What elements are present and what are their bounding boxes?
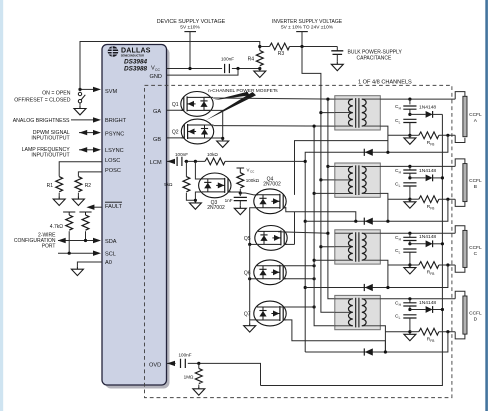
pull-up resistor 4.7k (to SCL) rail bar — [63, 212, 75, 215]
capacitor CH (A) — [409, 99, 411, 104]
svg-text:R3: R3 — [278, 51, 285, 57]
wire Q6 gate to V3 bus — [283, 278, 314, 280]
svg-text:5V ±10%: 5V ±10% — [180, 25, 200, 31]
wire node B to Q4 — [240, 193, 257, 195]
CCFL A lamp tube — [463, 96, 467, 136]
svg-text:FB: FB — [430, 142, 434, 146]
resistor RFB (C) — [410, 264, 419, 266]
Dallas logo mark — [108, 46, 119, 57]
ground below switch — [74, 106, 86, 115]
svg-text:1N4148: 1N4148 — [419, 234, 436, 240]
resistor 4.7k left — [66, 215, 73, 230]
steering diode (C) — [364, 284, 373, 291]
dashed box: 1 OF 4/8 CHANNELS — [145, 85, 452, 397]
svg-text:LOSC: LOSC — [105, 158, 120, 164]
svg-text:CCFL: CCFL — [469, 245, 482, 251]
svg-text:10kΩ: 10kΩ — [207, 152, 218, 157]
node switch/rail junction — [78, 88, 81, 91]
resistor RFB (D) — [410, 331, 419, 333]
node B (Q4 drive node) — [239, 191, 242, 194]
node SDA pull-up — [84, 239, 87, 242]
diode 1N4148 (C) — [410, 243, 426, 245]
steering diode (D) — [364, 348, 373, 355]
wire Q1 source down to ground node — [204, 110, 223, 138]
lamp C connector tabs — [455, 226, 465, 273]
bus V3 (low-side primary bus) — [314, 126, 335, 326]
wire Q7 drain to V3 bus — [277, 306, 314, 308]
steering diode (A) — [364, 149, 373, 156]
resistor 10k (horizontal) — [205, 158, 225, 165]
node CH/CL/diode (C) — [408, 242, 411, 245]
page frame: left pale blue strip — [0, 0, 3, 411]
wire 1N4148 cathode to OVD bus top — [261, 114, 443, 385]
SDA wire — [58, 240, 95, 242]
wire device supply down to VCC line — [189, 32, 191, 69]
transistor Q3 2N7002 — [199, 173, 231, 198]
svg-text:CCFL: CCFL — [469, 311, 482, 317]
transistor Q5 — [255, 226, 287, 251]
BRIGHT pin arrow — [93, 117, 101, 122]
svg-text:A0: A0 — [105, 260, 112, 266]
svg-text:SEMICONDUCTOR: SEMICONDUCTOR — [121, 53, 144, 57]
svg-text:Q1: Q1 — [172, 102, 179, 108]
node CL/RFB (D) — [408, 330, 411, 333]
node R4/R3/SVM rail — [258, 45, 261, 48]
IC U1 DS3984/DS3988 shadow — [105, 48, 170, 389]
svg-text:GB: GB — [153, 137, 161, 143]
wire T3 secondary top to lamp C — [380, 232, 455, 234]
ground below A0 — [71, 267, 83, 276]
node SCL pull-up — [68, 252, 71, 255]
capacitor 100nF (VCC decoupling) — [225, 64, 230, 73]
svg-text:GND: GND — [150, 74, 162, 80]
steering diode (C) wire — [305, 265, 448, 288]
ground at CL/RFB node (C) — [404, 265, 416, 274]
wire Q5 source — [250, 243, 259, 245]
FAULT pin arrow (output) — [94, 206, 102, 208]
node CL/RFB (B) — [408, 198, 411, 201]
LSYNC double arrow — [79, 147, 101, 152]
transistor Q6 — [254, 260, 286, 285]
capacitor CL (B) — [403, 183, 416, 186]
steering diode (D) wire — [305, 332, 448, 352]
node RFB / lamp D return — [446, 330, 449, 333]
node 1M tap — [197, 362, 200, 365]
svg-text:BRIGHT: BRIGHT — [105, 118, 127, 124]
wire 5k bottom to ground node — [186, 193, 195, 201]
CCFL B lamp tube — [463, 164, 467, 202]
transformer T3 — [335, 230, 381, 264]
svg-text:2N7002: 2N7002 — [263, 182, 281, 188]
svg-text:POSC: POSC — [105, 168, 121, 174]
wire V3 to T2/T3 bottoms — [314, 193, 335, 260]
svg-text:1MΩ: 1MΩ — [184, 375, 194, 380]
svg-text:1N4148: 1N4148 — [419, 105, 436, 111]
ground below Q3 — [189, 200, 201, 209]
wire Q3 source to ground node — [195, 192, 202, 200]
wire cap to OVD bus corner — [188, 363, 261, 385]
svg-text:100nF: 100nF — [178, 353, 191, 358]
wire Q3 drain feed — [195, 161, 202, 179]
bus V4 (supply centre-tap bus) — [321, 113, 352, 313]
resistor R4 — [259, 47, 261, 51]
device supply rail tick — [184, 31, 196, 33]
wire R4 to R3 — [260, 46, 270, 48]
wire T4 secondary bottom down to RFB node — [380, 326, 410, 352]
svg-text:OVD: OVD — [149, 362, 161, 368]
wire Q5 gate to V1 bus — [284, 243, 294, 245]
CCFL D lamp tube — [463, 296, 467, 334]
transistor Q1 — [181, 92, 213, 117]
node CH/CL/diode (D) — [408, 308, 411, 311]
wire LOSC to R1 — [59, 162, 102, 177]
inverter supply rail tick — [296, 31, 308, 33]
capacitor CL (C) — [403, 249, 416, 252]
node Q4 gate tap on steering wire (B) — [354, 220, 357, 223]
svg-text:D: D — [474, 317, 478, 323]
ground at CL/RFB node (D) — [404, 332, 416, 341]
SVM pin arrow — [93, 87, 101, 92]
source-chain vertical Q4..Q7 — [249, 244, 251, 320]
wire A0 to ground — [77, 262, 102, 267]
capacitor CL (A) — [403, 119, 416, 122]
transistor Q2 — [181, 119, 213, 144]
svg-text:CC: CC — [250, 169, 255, 173]
svg-text:INPUT/OUTPUT: INPUT/OUTPUT — [31, 135, 70, 141]
svg-text:FB: FB — [430, 272, 434, 276]
node CH/CL/diode (B) — [408, 176, 411, 179]
bus V2 (LCM steering bus) — [305, 152, 309, 352]
ground below R4 — [254, 69, 266, 78]
svg-text:A: A — [474, 118, 478, 124]
svg-text:H: H — [399, 237, 402, 241]
svg-text:INVERTER SUPPLY VOLTAGE: INVERTER SUPPLY VOLTAGE — [272, 19, 343, 25]
svg-text:R1: R1 — [47, 183, 54, 189]
svg-text:SDA: SDA — [105, 239, 117, 245]
svg-text:PSYNC: PSYNC — [105, 131, 124, 137]
svg-text:L: L — [399, 250, 401, 254]
svg-text:R4: R4 — [248, 56, 255, 62]
node steering/secondary (C) — [386, 286, 389, 289]
svg-text:FAULT: FAULT — [105, 204, 123, 210]
svg-text:1N4148: 1N4148 — [419, 300, 436, 306]
svg-text:100nF: 100nF — [221, 57, 234, 62]
svg-text:LSYNC: LSYNC — [105, 148, 124, 154]
resistor 100k — [237, 173, 244, 188]
bus V5 (high-side primary bus) — [328, 99, 335, 299]
capacitor 1nF — [239, 193, 241, 196]
node steering/secondary (B) — [386, 220, 389, 223]
svg-text:FB: FB — [430, 339, 434, 343]
node 1N4148 to OVD bus (C) — [441, 242, 444, 245]
svg-text:CC: CC — [155, 68, 160, 72]
node R4 bottom — [258, 67, 261, 70]
SCL wire — [58, 252, 95, 254]
wire T1 secondary bottom down to RFB node — [380, 126, 410, 152]
node RFB / lamp A return — [446, 134, 449, 137]
lamp A connector tabs — [455, 92, 465, 143]
svg-text:Q5: Q5 — [244, 236, 251, 242]
lamp D connector tabs — [455, 291, 465, 339]
switch S1 — [78, 92, 85, 106]
wire Q7 gate routed to channel D steering wire — [283, 320, 385, 352]
svg-text:1 OF 4/8 CHANNELS: 1 OF 4/8 CHANNELS — [358, 79, 412, 85]
pull-up resistor 4.7k (to SDA) rail bar — [79, 212, 91, 215]
ground below Q1/Q2 sources — [217, 138, 229, 147]
CCFL C lamp tube — [463, 230, 467, 267]
steering diode (A) wire — [309, 135, 448, 152]
svg-text:B: B — [474, 184, 477, 190]
svg-text:L: L — [399, 316, 401, 320]
diode 1N4148 (B) — [410, 177, 426, 179]
diode 1N4148 (A) — [410, 113, 426, 115]
svg-text:Q2: Q2 — [172, 130, 179, 136]
capacitor CL (D) — [403, 315, 416, 318]
transistor Q4 2N7002 — [254, 189, 286, 214]
svg-text:OFF/RESET = CLOSED: OFF/RESET = CLOSED — [14, 98, 71, 104]
node CH/CL/diode (A) — [408, 113, 411, 116]
wire Q6 source — [250, 278, 258, 280]
svg-text:FB: FB — [430, 206, 434, 210]
svg-text:SVM: SVM — [105, 89, 117, 95]
ground below 1M — [193, 386, 205, 395]
svg-text:1N4148: 1N4148 — [419, 168, 436, 174]
wire GA to Q1 gate — [167, 109, 184, 111]
svg-text:DS3988: DS3988 — [124, 65, 148, 72]
wire inverter supply down to centre-tap bus — [302, 47, 321, 113]
node 1N4148 to OVD bus (D) — [441, 308, 444, 311]
svg-text:ANALOG BRIGHTNESS: ANALOG BRIGHTNESS — [13, 118, 70, 124]
ground below bulk cap — [331, 62, 343, 71]
OVD pin arrow — [167, 362, 176, 364]
node RFB / lamp B return — [446, 198, 449, 201]
node steering/secondary/Q7-gate (D) — [384, 350, 387, 353]
wire Q6 drain to V3 bus — [277, 265, 314, 267]
wire inverter supply down — [301, 32, 303, 47]
svg-text:DEVICE SUPPLY VOLTAGE: DEVICE SUPPLY VOLTAGE — [157, 19, 226, 25]
ground at CL/RFB node (A) — [404, 135, 416, 144]
ground below 1nF — [234, 206, 246, 215]
svg-text:H: H — [399, 106, 402, 110]
resistor RFB (B) — [410, 198, 419, 200]
wire T1 secondary top to lamp A — [380, 98, 455, 100]
IC U1 DS3984/DS3988 body — [102, 45, 167, 386]
svg-text:CCFL: CCFL — [469, 112, 482, 118]
wire 10k to LCM bus — [225, 160, 305, 162]
svg-text:5kΩ: 5kΩ — [164, 182, 173, 187]
VCC rail symbol above 100k — [237, 168, 245, 173]
resistor R2 — [75, 177, 82, 192]
ground at CL/RFB node (B) — [404, 199, 416, 208]
wire T2 secondary bottom down to RFB node — [380, 193, 410, 221]
svg-text:DS3984: DS3984 — [124, 58, 148, 65]
svg-text:PORT: PORT — [42, 243, 56, 249]
svg-text:C: C — [474, 251, 478, 257]
svg-text:R2: R2 — [85, 183, 92, 189]
svg-text:CCFL: CCFL — [469, 178, 482, 184]
ground below R2 — [72, 197, 84, 206]
svg-text:CAPACITANCE: CAPACITANCE — [357, 55, 392, 61]
node Q1/Q2 source ground — [221, 137, 224, 140]
wire R3 to inverter supply node — [290, 46, 338, 48]
svg-text:H: H — [399, 170, 402, 174]
resistor RFB (A) — [410, 134, 419, 136]
callout arrow to Q2 — [206, 92, 256, 120]
transformer T4 — [335, 295, 381, 329]
svg-text:LCM: LCM — [150, 160, 162, 166]
wire Q1 drain to transformer T1 — [204, 97, 335, 99]
wire T4 secondary top to lamp D — [380, 298, 455, 300]
node 5k tap — [185, 160, 188, 163]
node RFB / lamp C return — [446, 263, 449, 266]
svg-text:H: H — [399, 303, 402, 307]
resistor 1M — [198, 363, 200, 368]
resistor R1 — [56, 177, 63, 192]
wire Q3 gate to node B — [228, 191, 240, 193]
wire Q7 source down to ground — [250, 320, 258, 323]
diode 1N4148 (D) — [410, 309, 426, 311]
wire Q5 drain to transformer C top bus — [278, 232, 328, 234]
wire cap to 10k — [184, 160, 205, 162]
wire to BRIGHT — [71, 119, 94, 121]
wire T3 secondary bottom down to RFB node — [380, 260, 410, 287]
node cap/GND — [236, 67, 239, 70]
ground below Q7 source chain — [244, 323, 256, 332]
wire T2 secondary top to lamp B — [380, 165, 455, 167]
wire Q2 source to ground node — [205, 137, 223, 139]
capacitor CH (B) — [409, 166, 411, 170]
capacitor 100nF (OVD) — [181, 359, 186, 368]
node CL/RFB (C) — [408, 263, 411, 266]
lamp B connector tabs — [455, 159, 465, 207]
bus V1 (Q5 gate / channel A feedback tap) — [295, 141, 388, 195]
wire V5 to T2 top — [328, 165, 335, 167]
wire SVM to switch junction — [80, 88, 94, 90]
node Q3 source / 5k ground — [194, 199, 197, 202]
wire SVM rail up/over to R4 top — [80, 42, 260, 90]
node inverter supply — [300, 45, 303, 48]
wire GB to Q2 gate — [167, 137, 185, 139]
capacitor CH (D) — [409, 299, 411, 303]
capacitor 100nF (LCM) — [177, 157, 182, 166]
svg-text:L: L — [399, 184, 401, 188]
node steering/secondary (A) — [386, 151, 389, 154]
svg-text:SCL: SCL — [105, 251, 116, 257]
wire VCC pin to decoupling cap — [167, 68, 223, 70]
node 1N4148 to OVD bus (B) — [441, 176, 444, 179]
page frame: right steel-blue border line — [485, 0, 488, 411]
wire GND pin up to cap node — [167, 69, 239, 76]
wire Q2 drain to transformer T1 bottom — [205, 125, 335, 126]
svg-text:ON = OPEN: ON = OPEN — [42, 91, 71, 97]
wire V4 to T1/T2/T3 centre taps — [321, 113, 352, 247]
svg-text:L: L — [399, 121, 401, 125]
transistor Q7 — [254, 301, 286, 326]
svg-text:4.7kΩ: 4.7kΩ — [50, 224, 63, 230]
wire Q4 source to source chain — [250, 208, 258, 245]
steering diode (B) wire — [305, 199, 448, 221]
ground below R1 — [53, 197, 65, 206]
resistor R3 — [270, 43, 290, 50]
node Q3 drain tap — [194, 160, 197, 163]
resistor 4.7k right — [82, 215, 89, 230]
wire POSC to R2 — [78, 172, 102, 177]
transformer T1 — [335, 96, 381, 130]
svg-text:5V ± 10% TO 24V ±10%: 5V ± 10% TO 24V ±10% — [281, 25, 334, 31]
wire Q4 gate across to channel B steering wire — [283, 208, 356, 221]
svg-text:100nF: 100nF — [175, 152, 188, 157]
callout arrow to Q1 — [214, 92, 250, 100]
bulk power-supply capacitance — [331, 47, 343, 62]
resistor 5k — [185, 161, 187, 176]
svg-text:2N7002: 2N7002 — [207, 205, 225, 211]
svg-text:GA: GA — [153, 109, 161, 115]
node CL/RFB (A) — [408, 134, 411, 137]
LCM pin arrow — [167, 160, 174, 162]
capacitor CH (C) — [409, 233, 411, 237]
transformer T2 — [335, 163, 381, 197]
svg-text:1nF: 1nF — [225, 198, 233, 203]
wire cap to R4 bottom — [232, 68, 260, 70]
svg-text:INPUT/OUTPUT: INPUT/OUTPUT — [31, 153, 70, 159]
node device supply / VCC — [188, 67, 191, 70]
svg-text:100kΩ: 100kΩ — [246, 178, 260, 183]
steering diode (B) — [364, 218, 373, 225]
PSYNC double arrow — [79, 130, 101, 135]
